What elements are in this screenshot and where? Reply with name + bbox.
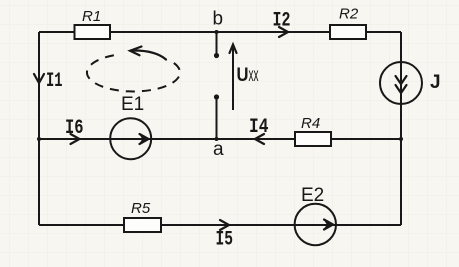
wire left: [38, 32, 40, 225]
wire stub node b: [216, 32, 218, 54]
svg-text:I2: I2: [273, 10, 291, 33]
current source J: [380, 62, 441, 104]
current arrow I2: [273, 10, 291, 38]
svg-text:J: J: [430, 72, 441, 93]
dashed loop ellipse: [87, 55, 180, 92]
node a: [213, 137, 224, 160]
EMF source E1: [110, 94, 151, 159]
current arrow I5: [216, 220, 234, 252]
resistor R4: [295, 115, 331, 146]
wire middle: [39, 138, 401, 140]
current arrow I4: [249, 116, 269, 144]
svg-text:R4: R4: [301, 115, 320, 132]
svg-text:I4: I4: [249, 116, 269, 139]
junction right middle: [399, 137, 403, 141]
svg-text:U: U: [237, 65, 249, 86]
port terminal lower dot: [214, 94, 219, 99]
EMF source E2: [295, 185, 336, 245]
wire top: [39, 31, 401, 33]
resistor R2: [330, 6, 366, 40]
svg-text:R1: R1: [82, 8, 101, 25]
junction left middle: [37, 137, 41, 141]
svg-text:b: b: [213, 9, 224, 30]
current arrow I1: [34, 70, 63, 93]
node b: [213, 9, 224, 35]
wire stub node a: [216, 98, 218, 139]
current arrow I6: [65, 117, 84, 144]
loop direction arrow: [130, 47, 166, 60]
svg-text:a: a: [213, 139, 224, 160]
svg-text:E2: E2: [301, 185, 324, 206]
resistor R5: [124, 200, 161, 232]
svg-text:I6: I6: [65, 117, 84, 140]
voltage arrow Uxx: [230, 45, 259, 111]
svg-text:R5: R5: [131, 200, 151, 217]
wire bottom: [39, 224, 401, 226]
resistor R1: [75, 8, 111, 39]
svg-text:R2: R2: [339, 6, 359, 23]
svg-text:I1: I1: [46, 70, 63, 93]
svg-text:E1: E1: [121, 94, 144, 115]
port terminal upper dot: [214, 53, 219, 58]
svg-text:xx: xx: [249, 65, 259, 86]
svg-text:I5: I5: [216, 229, 234, 252]
wire right: [400, 32, 402, 225]
